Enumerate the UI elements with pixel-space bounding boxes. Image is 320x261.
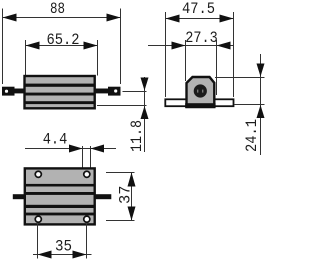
dim 27.3 arrows (outside) (172, 42, 186, 50)
svg-text:4.4: 4.4 (43, 131, 68, 149)
dim 88 arrows (3, 14, 17, 22)
svg-text:35: 35 (55, 238, 72, 256)
body base strip (185, 103, 215, 108)
svg-text:24.1: 24.1 (243, 119, 261, 152)
core circle (194, 84, 207, 97)
bottom view left lead (13, 194, 25, 199)
dim 47.5 dimension line (166, 12, 234, 97)
dim 24.1 arrows (outside) (257, 64, 265, 77)
dim 47.5 arrows (166, 15, 180, 23)
right terminal lug (108, 87, 121, 96)
dim 11.8 arrows (outside) (141, 78, 149, 91)
dim 24.1 (right side) (215, 54, 265, 155)
dim 4.4 dimension line (25, 146, 116, 170)
mounting hole top-right (83, 170, 91, 178)
dim 37 (right of bottom view) (106, 173, 135, 221)
right mounting flange (214, 99, 233, 106)
dim 37 arrows (128, 173, 136, 187)
right lug hole (114, 89, 117, 92)
dim 35 arrows (38, 251, 52, 259)
mounting hole bottom-right (83, 215, 91, 223)
left lead (14, 89, 25, 94)
left lug hole (5, 90, 8, 93)
bottom view body (25, 168, 95, 224)
dim 65.2 arrows (26, 42, 40, 50)
dim 11.8 (lead centre to mounting plane) (97, 77, 147, 152)
bottom view right lead (95, 194, 112, 199)
end view body (chamfered housing) (187, 77, 215, 107)
svg-text:27.3: 27.3 (185, 29, 218, 47)
svg-text:65.2: 65.2 (47, 31, 80, 49)
left terminal lug (2, 87, 15, 96)
svg-text:47.5: 47.5 (182, 0, 215, 18)
core slits (197, 90, 198, 93)
svg-text:88: 88 (50, 0, 65, 18)
right lead (95, 89, 109, 94)
dim 65.2 dimension line (25, 40, 98, 77)
mounting hole top-left (34, 170, 42, 178)
dim 88 dimension line (3, 9, 121, 85)
svg-text:37: 37 (117, 185, 135, 204)
left mounting flange (165, 99, 187, 106)
dim 4.4 arrows (outside) (69, 145, 83, 153)
dim 35 dimension line (33, 224, 92, 259)
resistor body side view (finned) (25, 76, 95, 108)
mounting hole bottom-left (34, 215, 42, 223)
dim 27.3 dimension line (148, 40, 234, 95)
svg-text:11.8: 11.8 (128, 120, 146, 152)
